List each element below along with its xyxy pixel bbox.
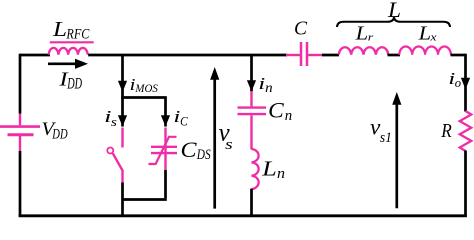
capacitor C_n top lead <box>250 91 252 106</box>
battery VDD top lead <box>19 114 21 126</box>
wire L_n branch lower <box>250 189 253 217</box>
battery VDD short plate <box>8 133 34 136</box>
capacitor C plates <box>301 42 307 66</box>
brace over L_r and L_x <box>337 17 450 28</box>
inductor L_RFC core bar <box>50 41 94 43</box>
inductor L_r coil <box>339 47 388 54</box>
current arrow i_C head <box>161 115 170 126</box>
wire left rail lower <box>19 151 22 217</box>
inductor L_x coil <box>399 47 451 55</box>
current arrow i_s head <box>118 115 127 126</box>
svg-text:L: L <box>418 23 432 45</box>
svg-text:n: n <box>285 108 292 124</box>
wire between L_r and L_x <box>388 54 401 57</box>
svg-text:C: C <box>294 18 308 40</box>
svg-text:R: R <box>440 120 452 142</box>
capacitor C_n plates <box>238 108 267 115</box>
svg-text:DD: DD <box>52 126 68 142</box>
wire C_DS branch upper <box>164 98 167 127</box>
capacitor C_n bottom lead <box>250 115 252 149</box>
svg-text:x: x <box>429 32 437 44</box>
svg-text:C: C <box>268 98 285 123</box>
svg-text:MOS: MOS <box>134 81 157 95</box>
svg-text:RFC: RFC <box>66 27 91 43</box>
switch upper contact lead <box>121 128 123 148</box>
battery VDD bottom lead <box>19 136 21 152</box>
capacitor C right lead <box>308 54 323 56</box>
svg-text:n: n <box>277 166 285 182</box>
wire left rail upper <box>19 54 22 114</box>
svg-text:o: o <box>455 75 462 90</box>
capacitor C left lead <box>286 54 300 56</box>
current arrow i_MOS head <box>118 81 127 92</box>
svg-text:s1: s1 <box>380 130 392 146</box>
inductor L_n coil <box>252 149 259 189</box>
svg-text:DD: DD <box>67 76 82 93</box>
capacitor C_DS lead through <box>164 128 166 171</box>
battery VDD long plate <box>0 125 40 128</box>
wire between C and L_r <box>322 54 339 57</box>
wire junction horizontal to C_DS branch <box>121 96 167 99</box>
wire C_DS bottom corner to switch branch <box>123 198 167 201</box>
capacitor C_DS plates <box>151 147 177 153</box>
wire switch branch lower black <box>121 183 124 218</box>
wire switch branch upper black <box>121 98 124 127</box>
wire top rail right segment <box>451 54 466 57</box>
switch arm <box>113 153 123 171</box>
svg-text:L: L <box>261 157 277 181</box>
wire top rail left segment <box>20 54 50 57</box>
svg-text:r: r <box>368 32 374 44</box>
wire right rail upper <box>464 54 467 112</box>
svg-text:C: C <box>181 137 197 162</box>
switch pivot circle <box>107 148 113 154</box>
wire C_DS branch lower <box>164 170 167 198</box>
wire switch branch from top rail <box>121 55 124 99</box>
svg-text:DS: DS <box>196 147 211 163</box>
wire right rail lower <box>464 151 467 218</box>
voltage arrow v_s <box>213 78 216 209</box>
capacitor C_DS nonlinear stroke <box>149 137 177 164</box>
svg-text:s: s <box>225 137 233 153</box>
current arrow i_n head <box>247 80 256 91</box>
resistor R <box>460 111 472 151</box>
svg-text:C: C <box>180 113 188 128</box>
svg-text:L: L <box>355 23 369 45</box>
svg-text:s: s <box>111 114 117 129</box>
svg-text:n: n <box>265 81 273 96</box>
wire top rail middle segment <box>88 54 287 57</box>
svg-text:L: L <box>52 17 67 41</box>
wire bottom rail <box>19 214 467 217</box>
inductor L_RFC coil <box>49 48 88 55</box>
wire C_n branch from top rail <box>250 55 253 92</box>
svg-text:L: L <box>387 0 401 22</box>
current arrow I_DD <box>48 62 78 65</box>
voltage arrow v_s1 <box>395 103 398 208</box>
current arrow i_o head <box>461 78 470 90</box>
switch lower contact lead <box>121 171 123 184</box>
